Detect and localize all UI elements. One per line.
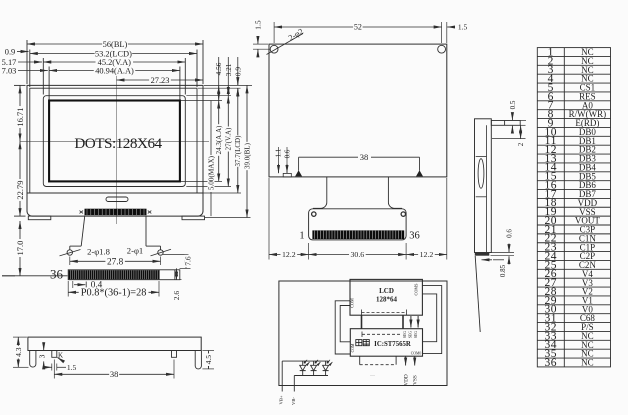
dim 27(V.A) xyxy=(227,96,229,187)
dim 3.21 xyxy=(227,57,229,96)
detail pin strip xyxy=(68,270,180,280)
block diagram outer box xyxy=(279,281,447,386)
centerline horizontal xyxy=(20,140,209,142)
viewing area V.A xyxy=(43,96,185,187)
driver bottom dashed (omitted pins) xyxy=(359,356,361,365)
wire LCD-right to driver-right inner xyxy=(422,294,436,342)
dim 52 xyxy=(273,22,275,43)
svg-text:52: 52 xyxy=(354,23,362,32)
svg-text:22.79: 22.79 xyxy=(15,180,25,199)
dim 5.00(MAX) xyxy=(210,101,212,217)
dim 4.56 xyxy=(218,57,220,101)
wire LCD-left to driver-left outer xyxy=(335,301,350,354)
hole circle right xyxy=(438,45,446,53)
svg-text:1.5: 1.5 xyxy=(458,23,468,32)
svg-text:128*64: 128*64 xyxy=(376,296,398,304)
pin assignment table xyxy=(537,48,610,367)
VSS wire xyxy=(414,356,416,365)
svg-text:0.5: 0.5 xyxy=(509,100,517,109)
small bump 1.1/0.6 xyxy=(283,173,291,177)
svg-text:1.1: 1.1 xyxy=(275,148,283,157)
front view: LCD module outline xyxy=(20,76,209,224)
wire LCD-bottom to driver-top left xyxy=(361,315,363,329)
dim 1.5 top-left vertical xyxy=(257,36,259,44)
lcd bottom full line xyxy=(27,192,203,194)
wire LCD-bottom to driver-top right xyxy=(402,315,404,329)
svg-text:4.5: 4.5 xyxy=(204,355,213,365)
driver inner dashed xyxy=(362,333,400,335)
side flange xyxy=(491,121,520,126)
svg-text:56(BL): 56(BL) xyxy=(103,40,128,49)
dim 38 back xyxy=(299,156,420,158)
svg-text:COM: COM xyxy=(351,343,355,352)
svg-text:24.3(A.A): 24.3(A.A) xyxy=(215,125,223,154)
slot xyxy=(106,197,128,202)
LCD glass outline xyxy=(30,88,197,193)
svg-text:36: 36 xyxy=(50,267,64,282)
side pin strip xyxy=(475,253,490,256)
connector plate xyxy=(309,209,407,240)
zebra ellipse xyxy=(478,159,484,189)
svg-text:P0.8*(36-1)=28: P0.8*(36-1)=28 xyxy=(81,288,147,299)
svg-text:3: 3 xyxy=(37,354,46,358)
dim 7.6 xyxy=(163,253,189,255)
plate screw holes xyxy=(312,212,316,216)
svg-text:1.5: 1.5 xyxy=(253,20,262,30)
svg-text:36: 36 xyxy=(409,231,420,242)
dim 27.23 xyxy=(117,79,204,81)
side profile body xyxy=(475,119,492,253)
dim 24.3(A.A) xyxy=(218,101,220,182)
svg-text:16.71: 16.71 xyxy=(15,107,25,126)
dim 40.94(A.A) xyxy=(49,70,180,72)
back view outline xyxy=(269,44,447,177)
svg-text:COM: COM xyxy=(350,298,355,308)
svg-text:40.94(A.A): 40.94(A.A) xyxy=(95,66,134,75)
active area A.A xyxy=(49,101,180,182)
zebra compartment xyxy=(476,156,487,158)
inner tab right xyxy=(172,351,177,358)
svg-text:VB+: VB+ xyxy=(279,395,284,404)
mounting bump left xyxy=(295,170,302,176)
svg-text:17.0: 17.0 xyxy=(15,241,25,256)
driver label xyxy=(356,340,370,346)
leader lines from strip to detail xyxy=(81,216,85,247)
bottom dims 12.2/30.6/12.2 xyxy=(268,178,270,260)
svg-text:2: 2 xyxy=(517,142,525,146)
dim 17.0 xyxy=(19,221,21,276)
svg-text:30.6: 30.6 xyxy=(351,250,365,259)
dim 56(BL) xyxy=(27,43,203,45)
strip end x-marks xyxy=(80,211,84,214)
LCD inner dashed line xyxy=(362,311,407,313)
screw circle left xyxy=(67,250,72,255)
svg-text:COM0: COM0 xyxy=(411,352,422,356)
svg-text:0.9: 0.9 xyxy=(5,48,15,57)
driver IC box xyxy=(350,329,422,357)
dim 38 xyxy=(53,360,55,379)
bottom tab left xyxy=(28,216,51,220)
hole circle left 2-o2 xyxy=(270,45,278,53)
arrow wires into driver top xyxy=(410,316,412,328)
svg-text:0.6: 0.6 xyxy=(505,229,513,238)
svg-text:NC: NC xyxy=(581,358,594,368)
svg-text:12.2: 12.2 xyxy=(420,250,434,259)
dim 0.6 xyxy=(508,244,510,253)
svg-text:12.2: 12.2 xyxy=(282,250,296,259)
dim 3 xyxy=(43,342,45,350)
dim 0.4 xyxy=(74,284,85,286)
dim 53.2(LCD) xyxy=(30,53,197,55)
back pin strip (black) xyxy=(312,230,404,239)
dim 1.5 xyxy=(45,366,52,368)
svg-text:0.85: 0.85 xyxy=(499,264,507,277)
svg-text:39.0(BL): 39.0(BL) xyxy=(243,142,251,169)
svg-text:7.6: 7.6 xyxy=(184,256,193,266)
dim 0.85 xyxy=(482,259,493,261)
svg-text:VSS: VSS xyxy=(413,375,419,385)
dim P0.8*(36-1)=28 xyxy=(67,281,69,297)
svg-text:SEG: SEG xyxy=(409,331,413,338)
wire LCD-left to driver-left inner xyxy=(340,306,350,342)
pin diagonal xyxy=(475,256,480,332)
svg-text:COMS: COMS xyxy=(414,283,419,296)
bottom tab right xyxy=(182,216,205,220)
svg-text:VDD: VDD xyxy=(404,374,410,386)
dim 39.0(BL) xyxy=(246,85,248,217)
right top extension lines xyxy=(204,84,252,86)
svg-text:SEG: SEG xyxy=(403,331,407,338)
dim 37.7(LCD) xyxy=(237,88,239,193)
top dimension extension lines xyxy=(27,40,203,100)
svg-text:37.7(LCD): 37.7(LCD) xyxy=(234,135,242,167)
dim 0.5 xyxy=(511,113,513,120)
svg-text:4.56: 4.56 xyxy=(214,62,223,75)
bottom view bar xyxy=(28,337,201,350)
svg-text:5.00(MAX): 5.00(MAX) xyxy=(208,155,216,190)
svg-text:1.5: 1.5 xyxy=(67,363,77,372)
centerline vertical xyxy=(116,76,118,224)
svg-text:.....: ..... xyxy=(370,372,375,377)
inner tab K left xyxy=(52,351,57,358)
label 36 detail xyxy=(50,270,64,280)
svg-text:3.21: 3.21 xyxy=(224,63,233,76)
svg-text:1: 1 xyxy=(299,231,304,242)
svg-text:0.6: 0.6 xyxy=(284,149,292,158)
backlight BL outline xyxy=(27,85,203,216)
dim 2.6 xyxy=(180,279,182,281)
screw circle right xyxy=(158,250,163,255)
dim 4.3 xyxy=(13,336,27,338)
dim 1.5 top-right xyxy=(447,26,453,28)
dim 22.79 xyxy=(19,141,21,216)
svg-text:27.23: 27.23 xyxy=(151,76,170,85)
connector stem xyxy=(313,177,327,208)
right bottom extension lines xyxy=(181,180,222,182)
svg-text:38: 38 xyxy=(110,369,119,379)
VDD wire xyxy=(405,356,407,365)
svg-text:0.9: 0.9 xyxy=(233,67,242,76)
LED backlight array xyxy=(282,360,332,376)
dim 0.9 right xyxy=(237,57,239,85)
svg-text:7.03: 7.03 xyxy=(2,66,17,75)
dim 27.8 xyxy=(69,257,71,266)
svg-text:38: 38 xyxy=(360,152,369,162)
mounting bump right xyxy=(416,170,423,176)
dim 45.2(V.A) xyxy=(43,61,185,63)
svg-text:27.8: 27.8 xyxy=(107,257,124,267)
svg-text:36: 36 xyxy=(544,357,557,369)
dim 2 xyxy=(520,125,522,138)
svg-text:LCD: LCD xyxy=(379,287,394,295)
svg-text:4.3: 4.3 xyxy=(14,347,23,357)
backlight cathode wire xyxy=(293,376,295,392)
svg-text:2-φ1.8: 2-φ1.8 xyxy=(87,247,110,257)
front connector strip (black) xyxy=(85,209,147,216)
left leg xyxy=(30,351,36,368)
dim 4.5 xyxy=(202,350,214,352)
label 2-o2 with leader xyxy=(267,34,304,55)
svg-text:DOTS:128X64: DOTS:128X64 xyxy=(74,135,162,152)
dim 16.71 xyxy=(19,85,21,141)
left vertical dim chain xyxy=(14,84,26,86)
svg-text:2.6: 2.6 xyxy=(172,291,181,301)
svg-text:IC:ST7565R: IC:ST7565R xyxy=(374,341,411,348)
svg-text:27(V.A): 27(V.A) xyxy=(225,127,233,150)
svg-text:SEG: SEG xyxy=(414,331,418,338)
svg-text:2-φ1: 2-φ1 xyxy=(127,246,143,256)
wire LCD-right to driver-right outer xyxy=(422,286,441,354)
detail baseline xyxy=(2,275,68,277)
backlight anode wire xyxy=(281,361,283,391)
LCD box xyxy=(350,279,422,315)
svg-text:VB-: VB- xyxy=(291,397,296,405)
right leg xyxy=(195,351,201,369)
